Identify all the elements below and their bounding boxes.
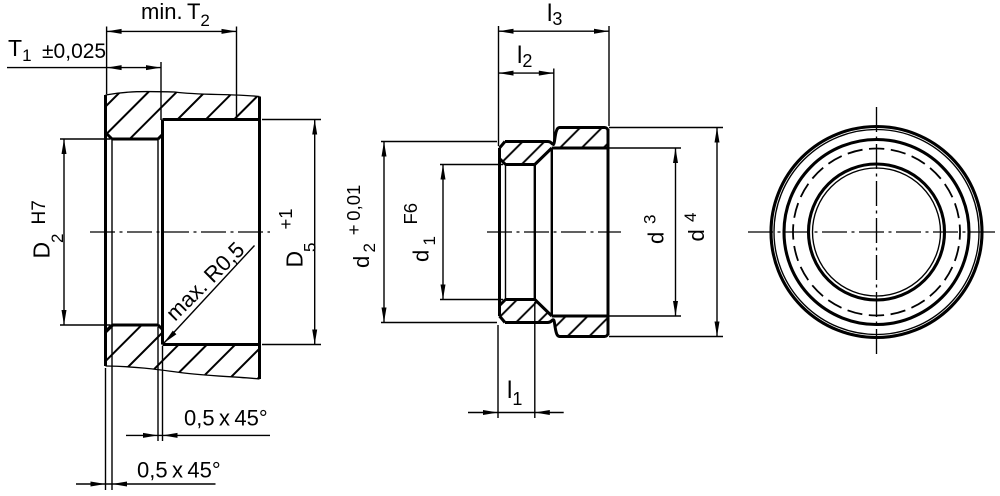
- dimension l1 line: [468, 412, 564, 414]
- bushing d1-taper edge circle: [534, 165, 536, 300]
- dimension d3 arrow up: [673, 148, 678, 163]
- svg-text:0,5 x 45°: 0,5 x 45°: [137, 458, 221, 483]
- step chamfer arrow right: [163, 433, 178, 438]
- dimension min T2 extension line (right): [236, 27, 238, 120]
- dimension min T2 arrow left: [107, 29, 122, 34]
- face chamfer dimension line: [76, 483, 216, 485]
- left view top-left chamfer 0,5x45: [106, 133, 113, 140]
- dimension T1 line: [7, 67, 161, 69]
- svg-text:F6: F6: [400, 203, 421, 225]
- face chamfer extension line left: [105, 368, 107, 490]
- svg-text:4: 4: [681, 213, 700, 222]
- dimension l1 arrow right: [535, 410, 550, 415]
- dimension d1 arrow down: [441, 285, 446, 300]
- front view horizontal centerline: [748, 231, 998, 233]
- dimension d3 line: [675, 148, 677, 316]
- dimension d4 arrow down: [715, 322, 720, 337]
- dimension d3 extension line bottom: [609, 315, 681, 317]
- dimension d4 arrow up: [715, 128, 720, 143]
- svg-text:max. R0,5: max. R0,5: [161, 237, 250, 326]
- svg-text:2: 2: [360, 243, 379, 252]
- dimension l3 arrow left: [499, 29, 514, 34]
- bushing bottom-left bore chamfer: [500, 300, 506, 306]
- dimension d3 extension line top: [609, 147, 681, 149]
- svg-text:l2: l2: [517, 42, 532, 71]
- dimension D2 line: [63, 139, 65, 325]
- dimension l3 line: [499, 30, 610, 32]
- dimension l1 extension line right: [534, 302, 536, 418]
- svg-text:+ 0,01: + 0,01: [343, 185, 364, 236]
- svg-text:min. T2: min. T2: [141, 0, 210, 30]
- dimension d1 line: [442, 165, 444, 300]
- dimension l3 arrow right: [594, 29, 609, 34]
- dimension T1 extension line (step): [160, 62, 162, 120]
- left view hatched section (top band): [106, 92, 260, 139]
- bushing d3 bore bottom line: [552, 315, 608, 318]
- bushing left face line: [498, 148, 501, 316]
- dimension D2 arrow up: [62, 139, 67, 154]
- svg-text:T1 ±0,025: T1 ±0,025: [8, 35, 106, 65]
- left view D5 bore bottom line: [163, 343, 260, 346]
- dimension d1 extension line bottom: [440, 299, 503, 301]
- left view chamfer-bore edge circle (left face): [111, 139, 113, 325]
- face chamfer arrow right: [112, 482, 127, 487]
- left view top step chamfer: [158, 135, 163, 140]
- dimension l2 arrow right: [539, 71, 554, 76]
- bushing taper bottom line: [535, 300, 552, 317]
- bushing centerline: [487, 231, 621, 233]
- bushing taper top line: [535, 148, 552, 165]
- left view hatched section (bottom band): [106, 325, 260, 379]
- svg-text:d: d: [349, 256, 374, 268]
- svg-text:1: 1: [420, 236, 439, 245]
- front view vertical centerline: [876, 107, 878, 357]
- dimension min T2 arrow right: [222, 29, 237, 34]
- dimension min T2 line: [107, 30, 237, 32]
- face chamfer arrow left: [91, 482, 106, 487]
- dimension d2 extension line bottom: [381, 322, 497, 324]
- bushing d1 bore bottom line: [506, 298, 535, 301]
- left view D5 bore top line: [163, 118, 260, 121]
- bushing hatched section (top band): [500, 128, 609, 165]
- left view D2 bore bottom line: [112, 324, 158, 327]
- bushing right face line: [607, 129, 610, 335]
- left view left face line (with chamfer edge circle across bore): [104, 95, 107, 366]
- dimension d2 line: [383, 142, 385, 323]
- front view bore chamfer circle: [813, 168, 941, 296]
- leader arrow max R0,5: [164, 331, 176, 343]
- svg-text:5: 5: [301, 243, 320, 252]
- dimension l1 arrow left: [483, 410, 498, 415]
- step chamfer dimension line: [126, 434, 270, 436]
- svg-text:d: d: [644, 232, 669, 244]
- left view D2 bore top line: [112, 138, 158, 141]
- dimension T1 arrow right: [146, 65, 161, 70]
- svg-text:l3: l3: [547, 0, 562, 29]
- bushing top-left outer chamfer: [500, 142, 506, 149]
- bushing chamfer-bore edge circle: [505, 165, 507, 300]
- dimension l2 line: [499, 72, 554, 74]
- dimension d2 extension line top: [381, 141, 497, 143]
- left view bottom-left chamfer 0,5x45: [106, 325, 113, 332]
- dimension D2 extension line bottom: [60, 324, 110, 326]
- front view hidden d3 circle (dashed): [793, 149, 960, 316]
- dimension D2 extension line top: [60, 138, 110, 140]
- front view d4 corner chamfer circle: [774, 130, 979, 335]
- left view bottom break line: [106, 366, 260, 379]
- svg-text:D: D: [29, 242, 55, 259]
- dimension d1 arrow up: [441, 165, 446, 180]
- svg-text:2: 2: [48, 234, 67, 243]
- svg-text:3: 3: [641, 215, 660, 224]
- bushing d1 bore top line: [506, 163, 535, 166]
- bushing top-left bore chamfer: [500, 159, 506, 165]
- dimension d4 extension line top: [609, 127, 723, 129]
- left view chamfer-bore edge circle (step): [157, 139, 159, 325]
- front view d1 bore circle: [809, 164, 945, 300]
- dimension D5 line: [314, 120, 316, 345]
- bushing taper-d3 edge circle: [551, 148, 553, 316]
- svg-text:H7: H7: [29, 200, 50, 224]
- leader line max R0,5: [164, 246, 255, 344]
- step chamfer extension line right: [162, 346, 164, 441]
- step chamfer extension line left: [157, 327, 159, 441]
- dimension d4 extension line bottom: [609, 336, 723, 338]
- left view step face / chamfer edge circle: [161, 120, 164, 345]
- dimension D2 arrow down: [62, 310, 67, 325]
- left view right edge: [258, 97, 261, 380]
- dimension D5 extension line top: [262, 119, 321, 121]
- dimension l1 extension line left: [497, 325, 499, 418]
- dimension d2 arrow up: [382, 142, 387, 157]
- left view bottom step chamfer: [158, 325, 163, 330]
- front view outer circle d4: [771, 127, 982, 338]
- dimension d2 arrow down: [382, 308, 387, 323]
- dimension T1 extension line (left face): [106, 27, 108, 95]
- dimension l3 extension line left: [498, 26, 500, 146]
- svg-text:+1: +1: [275, 208, 296, 229]
- left view centerline: [90, 231, 270, 233]
- front view d2 circle: [784, 140, 969, 325]
- bushing outer profile bottom (d2 surface, relief groove, d4 surface): [505, 320, 608, 337]
- step chamfer arrow left: [143, 433, 158, 438]
- dimension l3 extension line right: [608, 26, 610, 126]
- bushing d3 bore top line: [552, 147, 608, 150]
- svg-text:l1: l1: [507, 377, 522, 409]
- svg-text:0,5 x 45°: 0,5 x 45°: [184, 406, 268, 431]
- dimension D5 arrow up: [312, 120, 317, 135]
- dimension T1 arrow left: [107, 65, 122, 70]
- svg-text:D: D: [282, 251, 308, 268]
- left view top break line: [106, 92, 260, 97]
- bushing outer profile top (d2 surface, relief groove, d4 surface): [505, 128, 608, 145]
- dimension d3 arrow down: [673, 301, 678, 316]
- dimension D5 extension line bottom: [262, 344, 321, 346]
- bushing hatched section (bottom band): [500, 300, 609, 337]
- svg-text:d: d: [684, 229, 709, 241]
- dimension l2 extension line right: [553, 69, 555, 147]
- dimension D5 arrow down: [312, 330, 317, 345]
- dimension d1 extension line top: [440, 164, 503, 166]
- dimension l2 arrow left: [499, 71, 514, 76]
- dimension d4 line: [716, 128, 718, 337]
- svg-text:d: d: [409, 250, 434, 262]
- face chamfer extension line right: [111, 327, 113, 490]
- bushing bottom-left outer chamfer: [500, 316, 506, 323]
